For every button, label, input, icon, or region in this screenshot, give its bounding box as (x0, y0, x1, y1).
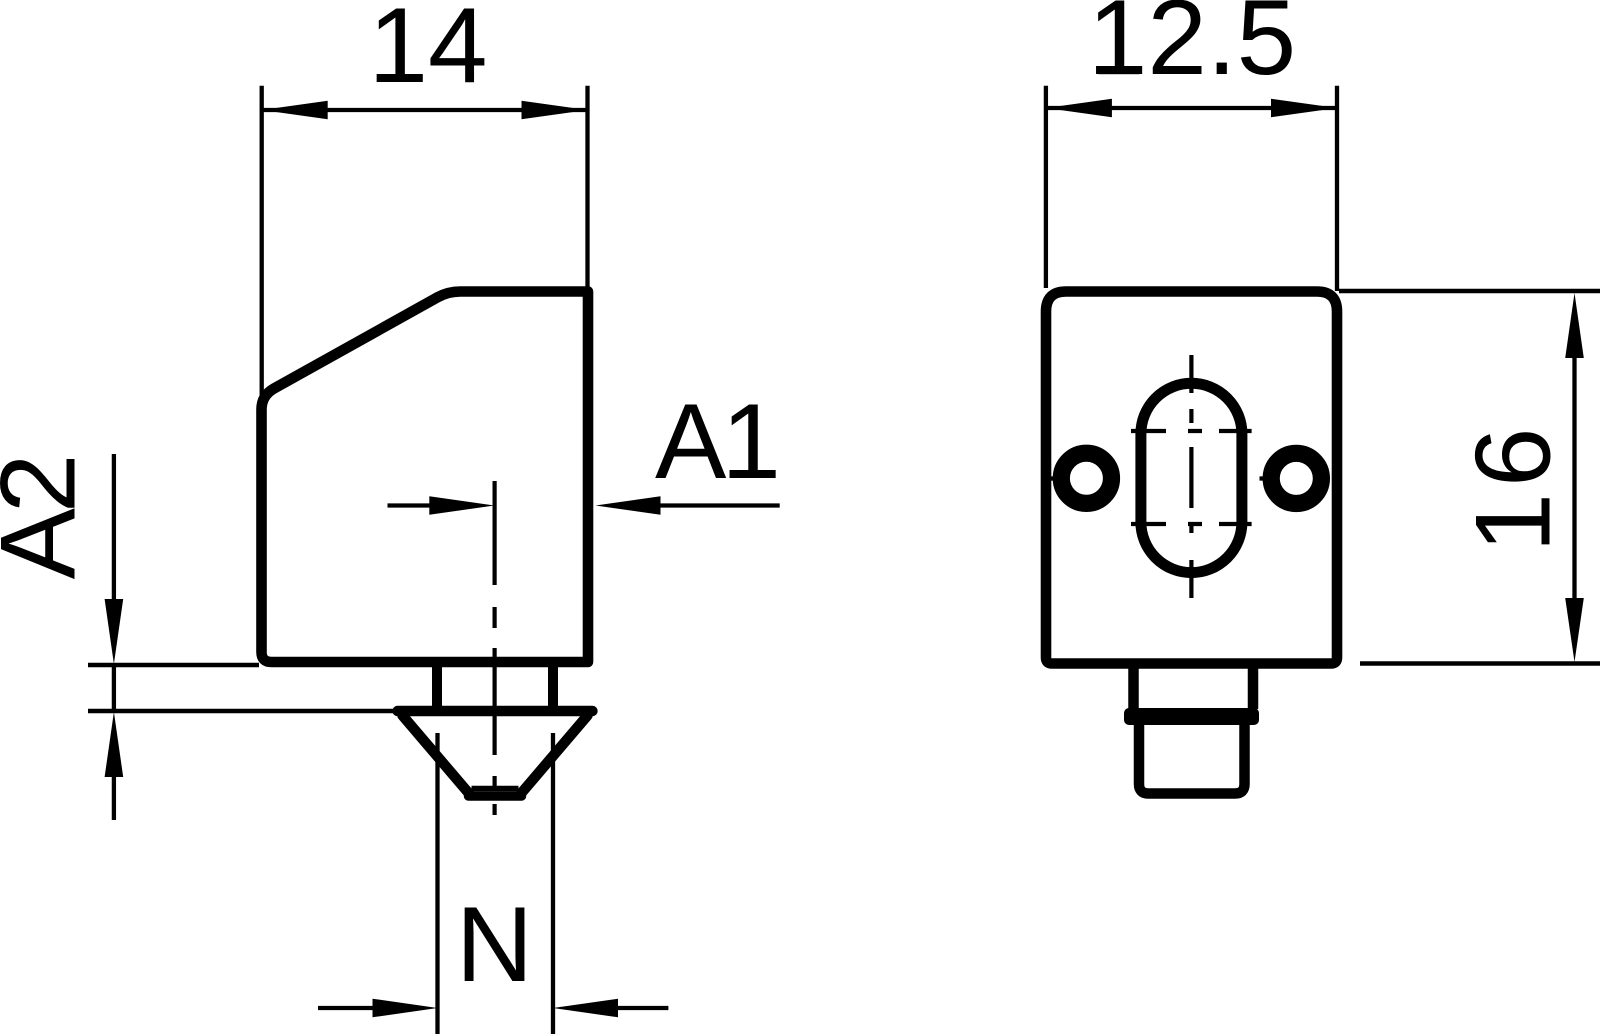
dimension A2 : dimension line between (112, 665, 116, 711)
dimension 12.5 : left arrowhead (1046, 99, 1112, 118)
T-nut head left slant (side view) (403, 716, 470, 794)
dimension 16 : up arrowhead (1565, 293, 1584, 358)
T-nut head top edge (side view) (398, 706, 593, 716)
svg-text:12.5: 12.5 (1088, 0, 1296, 97)
dimension A2 : lower extension line (T-nut head top) (88, 709, 395, 713)
dimension N : left extension line (435, 733, 439, 1034)
right hole centerline tick (1260, 476, 1267, 480)
slot upper horizontal centerline (1131, 429, 1252, 433)
dimension A2 : dimension line below (112, 776, 116, 820)
neck right line (screw boss, side view) (548, 664, 558, 709)
slot obround outline (front view) (1141, 383, 1242, 572)
left hole centerline tick (1048, 476, 1055, 480)
dimension A1 : left arrowhead (points right at centerline) (429, 496, 494, 515)
neck right line (front view) (1248, 665, 1259, 709)
dimension 12.5 : dimension line (1046, 106, 1337, 110)
left hole (ring) (1061, 453, 1111, 503)
T-nut head inner edge line (side view) (472, 786, 519, 792)
dimension A1 : dimension line left part (388, 503, 431, 507)
slot vertical centerline (1189, 355, 1193, 600)
dimension 16 : lower extension line (1360, 661, 1600, 665)
dimension 14 : right extension line (585, 86, 589, 288)
dimension 16 : value text (rotated) (1453, 421, 1573, 552)
dimension 16 : upper extension line (1339, 289, 1600, 293)
neck left line (screw boss, side view) (432, 664, 442, 709)
dimension 14 : left arrowhead (262, 101, 328, 120)
body outline (side view) (262, 292, 589, 663)
dimension 14 : serif foot of digit 1 (379, 75, 420, 82)
body outline (front view, rounded rectangle) (1046, 292, 1337, 664)
svg-text:A2: A2 (0, 458, 97, 579)
svg-text:14: 14 (368, 0, 487, 105)
T-nut head bottom edge (side view) (469, 791, 522, 801)
dimension N : right arrowhead (points left) (553, 999, 618, 1018)
slot lower horizontal centerline (1131, 522, 1252, 526)
dimension 12.5 : right extension line (1335, 86, 1339, 291)
dimension A1 : serif foot of digit 1 (732, 471, 773, 478)
dimension N : left arrowhead (points right) (373, 999, 438, 1018)
T-nut head right slant (side view) (521, 716, 588, 794)
neck left line (front view) (1128, 665, 1139, 709)
dimension 14 : left extension line (260, 86, 264, 396)
dimension A1 : dimension line right part (659, 503, 780, 507)
dimension 16 : dimension line (1572, 357, 1576, 599)
dimension A2 : up arrowhead (105, 712, 124, 777)
dimension A2 : dimension line above (112, 454, 116, 600)
serif foot of digit 1 (in rotated frame) (1543, 500, 1550, 541)
svg-text:N: N (456, 884, 533, 1004)
dimension 16 : down arrowhead (1565, 598, 1584, 662)
dimension A2 : down arrowhead (105, 599, 124, 664)
centerline (screw axis, side view) (493, 481, 497, 815)
dimension A1 : right arrowhead (points left at body edge) (596, 496, 661, 515)
T-nut collar band (front view) (1124, 708, 1259, 725)
dimension N : dimension line right part (617, 1006, 668, 1010)
T-nut head box (front view) (1139, 722, 1245, 794)
dimension A2 : upper extension line (body bottom) (88, 663, 259, 667)
dimension 12.5 : serif foot of digit 1 (1099, 68, 1140, 75)
right hole (ring) (1271, 453, 1321, 503)
dimension 14 : dimension line (262, 108, 588, 112)
dimension 12.5 : left extension line (1044, 86, 1048, 288)
svg-text:16: 16 (1453, 421, 1573, 552)
dimension 12.5 : right arrowhead (1271, 99, 1337, 118)
dimension 14 : right arrowhead (522, 101, 588, 120)
dimension N : right extension line (551, 733, 555, 1034)
svg-text:A1: A1 (655, 381, 776, 501)
dimension N : dimension line left part (318, 1006, 373, 1010)
dimension A2 : label text (rotated) (0, 458, 97, 579)
